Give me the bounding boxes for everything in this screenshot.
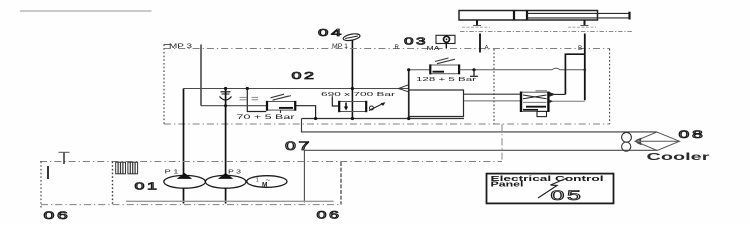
valve 690x700 adjust arrow xyxy=(370,106,374,110)
filter xyxy=(116,162,138,174)
junction bus/MP1 xyxy=(351,117,354,120)
grey marks under cylinder xyxy=(462,26,490,28)
slash symbol xyxy=(538,178,567,198)
counterbalance valve xyxy=(521,91,549,117)
junction B-line/128 outlet xyxy=(584,69,587,72)
wire 128 outlet to B xyxy=(459,68,585,70)
cooler circles xyxy=(622,132,632,142)
wire P3 riser xyxy=(225,89,227,175)
svg-text:01: 01 xyxy=(135,181,160,193)
wire manifold left edge xyxy=(408,70,410,119)
wire MP1 gauge drop xyxy=(351,40,353,119)
boundary dash-dot jog xyxy=(501,124,503,162)
svg-text:02: 02 xyxy=(292,70,317,82)
spring 128+5 xyxy=(435,58,455,64)
wire 70+5 outlet xyxy=(296,106,316,119)
wire cooler bottom pipe to tank xyxy=(304,150,657,202)
svg-text:P 1: P 1 xyxy=(165,170,179,176)
wire bus to cooler top pipe xyxy=(302,119,657,132)
svg-text:B: B xyxy=(578,45,582,52)
svg-text:05: 05 xyxy=(551,187,584,203)
relief valve 70+5 xyxy=(267,102,296,111)
bottom dash 06 xyxy=(41,204,341,206)
svg-text:06: 06 xyxy=(44,210,71,222)
cylinder port stem left xyxy=(476,20,478,26)
relief valve 128+5 line xyxy=(409,69,430,71)
svg-text:Panel: Panel xyxy=(491,180,524,189)
manifold box xyxy=(409,90,464,117)
svg-text:1: 1 xyxy=(256,177,259,183)
wire MP3 drop xyxy=(200,45,202,106)
junction rail1/MP1 xyxy=(351,87,354,90)
svg-text:08: 08 xyxy=(679,129,706,141)
valve 690x700 arrow xyxy=(345,103,347,108)
boundary dotted vertical 03 left xyxy=(493,49,495,124)
svg-text:70 + 5 Bar: 70 + 5 Bar xyxy=(237,115,295,121)
wire P1 riser xyxy=(183,89,185,175)
boundary dotted vertical 03 right xyxy=(609,49,611,124)
cylinder piston xyxy=(513,11,515,21)
rail2 xyxy=(201,105,267,107)
box2 right edge xyxy=(340,162,342,205)
boundary corner tick xyxy=(164,44,170,46)
valve right port bottom xyxy=(553,100,585,102)
wire A-line xyxy=(479,34,481,53)
svg-text:07: 07 xyxy=(285,141,312,153)
svg-text:Cooler: Cooler xyxy=(647,151,710,163)
relief valve 128+5 body xyxy=(430,65,459,74)
breather xyxy=(63,153,65,165)
wire B-line xyxy=(584,34,586,101)
tank line xyxy=(126,200,334,202)
valve 690x700 body xyxy=(339,102,367,112)
valve right port top xyxy=(549,93,565,97)
arrowhead on rail1 xyxy=(399,85,409,92)
dash line under cylinder xyxy=(460,31,632,33)
junction bus/70+5 outlet xyxy=(314,117,317,120)
cooler diamond 08 xyxy=(635,132,680,150)
svg-text:128 + 5 Bar: 128 + 5 Bar xyxy=(416,77,476,83)
electrical control panel box 05 xyxy=(487,174,614,204)
boundary dash-dot 06/07 top xyxy=(40,161,502,163)
tank box 06 left xyxy=(40,162,42,210)
cylinder barrel xyxy=(459,11,598,21)
svg-text:MP 3: MP 3 xyxy=(169,44,193,50)
svg-text:MP 1: MP 1 xyxy=(332,44,349,50)
pump rail (rail1) xyxy=(184,88,410,90)
wire gauge03 drop xyxy=(445,44,447,49)
plugged stub xyxy=(472,68,475,71)
level gauge xyxy=(47,166,49,179)
pump suction lines xyxy=(183,188,185,203)
svg-text:MA: MA xyxy=(427,46,440,52)
cylinder rod xyxy=(527,12,630,14)
spring 70+5 xyxy=(271,94,292,100)
boundary dotted vertical 02 left xyxy=(163,45,165,125)
cylinder port stem right xyxy=(584,20,586,26)
gauge 03 box xyxy=(436,35,455,43)
title underline xyxy=(20,10,152,12)
junction bus/manifold edge xyxy=(407,117,410,120)
svg-text:R: R xyxy=(395,45,400,51)
bus line xyxy=(302,118,465,120)
check valve (P3 line) xyxy=(220,92,232,100)
main dash-dot boundary line xyxy=(164,48,610,50)
svg-text:04: 04 xyxy=(318,27,344,39)
valve 690x700 bracket xyxy=(332,96,339,106)
boundary dash-dot bottom of 02/03 xyxy=(164,123,610,125)
valve block lines left xyxy=(464,93,521,95)
wire spring branch xyxy=(246,87,249,90)
vent marks xyxy=(240,96,247,98)
svg-text:P 3: P 3 xyxy=(228,170,241,176)
motor M xyxy=(247,176,287,188)
svg-text:03: 03 xyxy=(404,36,428,48)
svg-text:M: M xyxy=(262,182,267,189)
svg-text:06: 06 xyxy=(317,210,342,222)
